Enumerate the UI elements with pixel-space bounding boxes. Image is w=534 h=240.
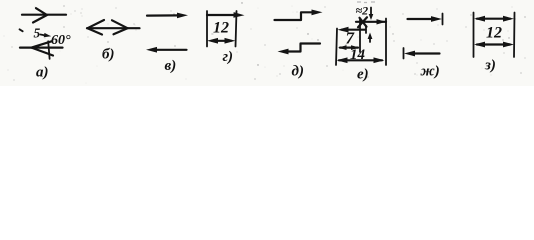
- svg-text:12: 12: [213, 20, 229, 37]
- svg-text:5: 5: [34, 26, 41, 41]
- svg-text:60°: 60°: [51, 33, 71, 48]
- svg-text:а): а): [36, 65, 49, 81]
- svg-text:в): в): [165, 58, 177, 74]
- svg-text:б): б): [102, 47, 114, 63]
- svg-text:7: 7: [346, 29, 356, 48]
- svg-text:е): е): [357, 67, 369, 83]
- svg-text:з): з): [484, 58, 496, 74]
- svg-text:д): д): [292, 64, 304, 80]
- svg-text:г): г): [223, 49, 234, 65]
- svg-text:12: 12: [486, 25, 502, 42]
- svg-text:≈2: ≈2: [356, 4, 369, 18]
- svg-text:ж): ж): [421, 64, 440, 80]
